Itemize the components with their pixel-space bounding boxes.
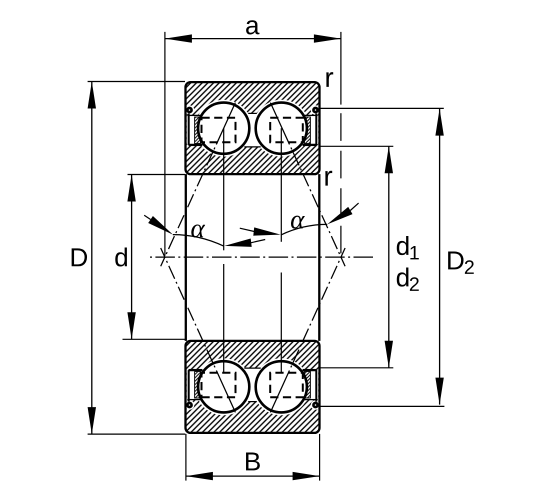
contact line upper-right (270, 103, 345, 267)
seal bead notch right (white) (311, 400, 321, 410)
alpha arrow right-outer (327, 207, 352, 225)
ring section outline (186, 82, 320, 174)
inner ring shoulder right (303, 369, 317, 371)
dimension d arrow top (127, 175, 135, 202)
seal carrier left (188, 113, 190, 144)
seal pocket left (white) (187, 115, 202, 144)
bore edge line left (185, 174, 187, 341)
seal bead right (313, 108, 317, 112)
dimension d1d2 arrow top (385, 146, 393, 173)
dimension D line (91, 82, 93, 435)
dimension a line (165, 38, 341, 40)
dimension D2 ext bottom (319, 405, 445, 407)
raceway clearance left (white) (195, 358, 252, 415)
ring section outline (186, 341, 320, 433)
ball left (198, 361, 249, 412)
outer ring seat line right (304, 399, 318, 401)
bore edge line right (318, 174, 320, 341)
dimension d1d2 ext top (319, 145, 394, 147)
contact line upper-left (161, 103, 236, 267)
dimension a arrow left (165, 34, 192, 42)
raceway clearance left (white) (195, 100, 252, 157)
raceway clearance right (white) (253, 100, 310, 157)
label D (72, 248, 87, 266)
bearing outer+inner ring hatched section (186, 341, 320, 433)
radial line lower-right ball (280, 273, 282, 373)
bearing axis centerline (147, 256, 375, 258)
alpha arrow left-inner (224, 239, 251, 247)
outer ring rib edge (248, 401, 257, 403)
inner ring shoulder left (189, 144, 203, 146)
dimension d ext bottom (123, 338, 187, 340)
label d (115, 247, 127, 266)
dimension d arrow bottom (127, 312, 135, 339)
seal carrier left (188, 370, 190, 402)
dimension D2 ext top (319, 107, 444, 109)
dimension D ext top (88, 81, 185, 83)
seal carrier right (315, 113, 317, 144)
dimension d line (131, 175, 133, 340)
label r outer corner (326, 72, 333, 87)
alpha arc left (173, 235, 224, 247)
dimension D2 line (439, 109, 441, 405)
dimension B ext right (319, 434, 321, 481)
dimension D2 arrow bottom (435, 378, 443, 405)
dimension a arrow right (314, 34, 341, 42)
inner ring rib edge (244, 146, 260, 148)
load zone dashed rect right (270, 373, 303, 397)
raceway clearance right (white) (253, 358, 310, 415)
seal bead left (187, 108, 191, 112)
upper bearing section (185, 82, 321, 174)
dimension d ext top (128, 174, 186, 176)
label D2 (448, 252, 463, 270)
dimension D ext bottom (88, 433, 186, 435)
alpha label left (191, 224, 205, 237)
alpha arrow left-inner tail (251, 240, 266, 243)
outer ring seat line right (304, 114, 318, 116)
radial line lower-left ball (223, 264, 225, 372)
contact line lower-left (161, 248, 236, 412)
lower bearing section (mirrored) (185, 341, 321, 433)
label B (246, 453, 260, 471)
seal rubber strip left (195, 117, 201, 144)
dimension d1d2 arrow bottom (385, 341, 393, 368)
alpha arc right (281, 224, 327, 234)
alpha arrow right-inner (253, 227, 280, 235)
label r inner corner (325, 171, 332, 186)
outer ring seat line left (187, 399, 201, 401)
seal rubber strip right (305, 372, 311, 399)
dimension a ext right (solid part) (340, 32, 342, 105)
seal bead left (187, 403, 191, 407)
contact line lower-right (270, 248, 345, 412)
ball left (198, 103, 249, 154)
seal bead notch right (white) (311, 105, 321, 115)
cage gap between balls (white) (246, 113, 259, 147)
ball right (256, 361, 307, 412)
dimension d1 d2 line (388, 146, 390, 367)
seal carrier right (315, 370, 317, 402)
dimension B line (186, 475, 320, 477)
seal bead right (313, 403, 317, 407)
load zone dashed rect right (270, 118, 303, 142)
alpha arrow right-inner tail (240, 228, 255, 231)
dimension a ext left (164, 32, 166, 256)
label d2 (397, 268, 409, 287)
dimension D arrow bottom (88, 407, 96, 434)
alpha arrow left-outer (148, 216, 173, 235)
load zone dashed rect left (202, 373, 236, 397)
radial line upper-left ball (223, 128, 225, 250)
dimension d1d2 ext bottom (319, 367, 394, 369)
dimension D arrow top (88, 82, 96, 109)
seal pocket left (white) (187, 371, 202, 400)
seal bead notch left (white) (185, 105, 195, 115)
label a (246, 20, 259, 34)
outer ring seat line left (187, 114, 201, 116)
dimension B ext left (185, 434, 187, 481)
seal bead notch left (white) (185, 400, 195, 410)
alpha arrow left-outer tail (144, 215, 150, 219)
ball right (256, 103, 307, 154)
outer ring rib edge (248, 112, 257, 114)
load zone dashed rect left (202, 118, 236, 142)
bearing outer+inner ring hatched section (186, 82, 320, 174)
seal pocket right (white) (303, 371, 318, 400)
inner ring shoulder left (189, 369, 203, 371)
seal rubber strip right (305, 117, 311, 144)
seal pocket right (white) (303, 115, 318, 144)
dimension B arrow right (293, 472, 320, 480)
radial line upper-right ball (280, 128, 282, 242)
alpha arrow right-outer tail (350, 203, 358, 210)
cage gap between balls (white) (246, 368, 259, 402)
dimension D2 arrow top (435, 109, 443, 136)
dimension a ext right (phantom part) (340, 113, 342, 255)
dimension B arrow left (186, 472, 213, 480)
inner ring rib edge (244, 367, 260, 369)
label d1 (397, 236, 409, 255)
alpha label right (291, 216, 305, 229)
inner ring shoulder right (303, 144, 317, 146)
seal rubber strip left (195, 372, 201, 399)
